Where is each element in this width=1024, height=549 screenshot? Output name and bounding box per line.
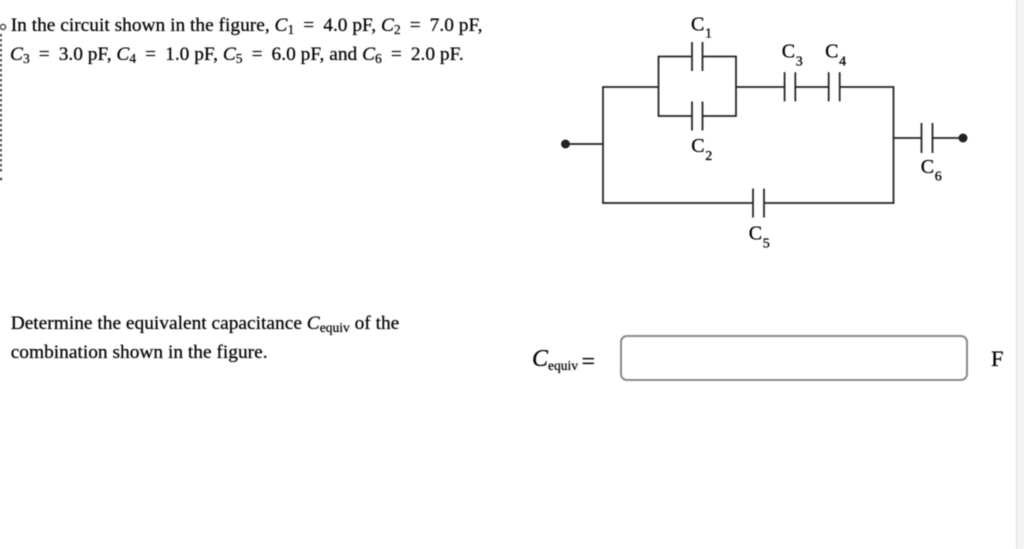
label C2 — [691, 135, 712, 164]
svg-text:C: C — [691, 14, 704, 36]
answer input box — [620, 335, 968, 381]
wire: C1 branch left segment — [659, 56, 693, 58]
svg-text:C: C — [691, 135, 704, 157]
unit F — [991, 348, 1004, 371]
wire: left terminal to left rail — [566, 143, 604, 145]
clipped circle glyph — [0, 24, 5, 29]
wire: parallel-box right side — [735, 56, 737, 117]
capacitor C3 — [785, 72, 796, 101]
wire: C3 to C4 — [795, 86, 828, 88]
svg-text:C: C — [825, 41, 838, 63]
wire: top-left horizontal — [603, 86, 659, 88]
circuit figure — [540, 0, 1024, 280]
wire: box to C3 — [736, 86, 785, 88]
wire: C2 branch right segment — [703, 115, 737, 117]
problem statement paragraph — [11, 11, 483, 70]
node: right terminal — [959, 134, 968, 143]
scrollbar track — [1016, 0, 1024, 549]
svg-text:6: 6 — [935, 170, 942, 185]
dotted vertical rule — [0, 34, 2, 172]
svg-text:C: C — [749, 223, 762, 245]
svg-text:3: 3 — [796, 55, 803, 70]
wire: C4 to right rail — [840, 86, 894, 88]
label C5 — [749, 223, 770, 252]
svg-text:2: 2 — [705, 149, 712, 164]
svg-text:5: 5 — [763, 237, 770, 252]
svg-text:4: 4 — [839, 55, 846, 70]
svg-text:C: C — [782, 41, 795, 63]
label C1 — [691, 14, 712, 42]
svg-text:C: C — [921, 156, 934, 178]
wire: parallel-box left side — [658, 56, 660, 117]
wire: C1 branch right segment — [703, 56, 737, 58]
wire: left vertical rail — [602, 86, 604, 204]
label C6 — [921, 156, 942, 185]
node: left terminal — [561, 140, 570, 149]
label C3 — [782, 41, 803, 70]
wire: bottom rail left of C5 — [602, 202, 753, 204]
wire: C6 to right terminal — [933, 137, 964, 139]
label C4 — [825, 41, 846, 70]
capacitor C4 — [829, 72, 840, 101]
left-edge clipped marks — [0, 0, 10, 200]
wire: right rail to C6 — [894, 137, 922, 139]
capacitor C2 — [692, 102, 703, 131]
answer label C_equiv = — [532, 347, 595, 371]
capacitor C5 — [753, 189, 764, 218]
wire: C2 branch left segment — [659, 115, 693, 117]
capacitor C6 — [922, 123, 933, 153]
wire: bottom rail right of C5 — [764, 202, 894, 204]
question paragraph — [11, 309, 400, 368]
capacitor C1 — [692, 42, 703, 71]
wire: right vertical rail — [893, 86, 895, 204]
svg-text:1: 1 — [705, 27, 712, 42]
